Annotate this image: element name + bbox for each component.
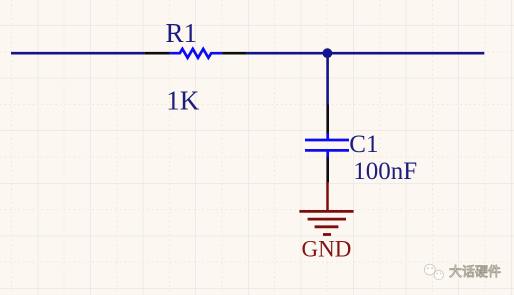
junction node bbox=[323, 48, 333, 58]
watermark text bbox=[449, 265, 501, 278]
ground bbox=[299, 182, 353, 235]
wire vertical to C1 bbox=[326, 53, 329, 104]
svg-text:1K: 1K bbox=[166, 85, 200, 115]
svg-text:100nF: 100nF bbox=[353, 158, 417, 185]
watermark logo bbox=[424, 264, 443, 279]
svg-text:GND: GND bbox=[302, 236, 352, 261]
wire right horizontal bbox=[247, 52, 485, 55]
resistor R1 bbox=[145, 49, 247, 58]
wire left horizontal bbox=[11, 52, 145, 55]
svg-text:R1: R1 bbox=[166, 18, 198, 48]
capacitor C1 bbox=[305, 104, 349, 182]
svg-text:C1: C1 bbox=[349, 131, 378, 158]
